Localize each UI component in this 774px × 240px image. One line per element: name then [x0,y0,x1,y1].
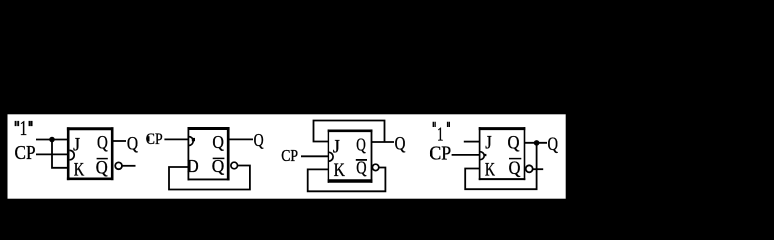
wire CP to clock (circuit 2) [164,138,188,140]
inverted output bubble (circuit 2) [231,162,238,169]
svg-text:CP: CP [429,143,451,164]
wire bottom feedback Qbar to K (circuit 3) [308,168,386,192]
logic-1 label "1" (circuit 1) [16,116,32,140]
svg-text:Q: Q [97,134,108,154]
svg-text:Q: Q [96,158,109,178]
svg-text:CP: CP [281,146,298,165]
svg-text:J: J [485,133,492,153]
JK flip-flop FF1 [67,127,114,180]
svg-text:K: K [485,160,496,180]
wire Qbar output (circuit 1) [122,165,136,167]
svg-text:D: D [187,156,199,176]
CP label (circuit 2) [147,136,149,141]
svg-text:K: K [334,161,346,181]
svg-text:Q: Q [356,134,366,154]
wire Q output (circuit 4) [524,142,547,144]
svg-text:Q: Q [254,130,264,150]
inverted output bubble (circuit 4) [526,165,533,172]
svg-text:Q: Q [395,134,406,154]
svg-text:Q: Q [212,132,224,152]
svg-text:CP: CP [15,143,36,164]
wire J input (circuit 4) [464,141,479,143]
JK flip-flop FF3 [328,129,373,182]
wire Qbar output (circuit 4) [533,168,544,170]
node junction on Q output (circuit 4) [534,140,540,146]
wire CP to clock (circuit 3) [301,155,329,157]
svg-text:CP: CP [146,131,163,148]
quote marks label (circuit 4) [433,122,449,127]
CP label (circuit 4) [430,151,432,157]
wire Q output (circuit 1) [113,140,126,142]
svg-text:J: J [333,137,340,157]
node junction on J wire (circuit 1) [49,137,55,143]
wire feedback Qbar to D (circuit 2) [169,166,250,190]
inverted output bubble (circuit 3) [372,164,378,170]
svg-text:1: 1 [20,116,28,140]
JK flip-flop FF4 [479,127,526,180]
wire Q output (circuit 2) [228,138,253,140]
inverted output bubble (circuit 1) [115,162,122,169]
D flip-flop FF2 [187,127,229,180]
wire CP to clock (circuit 1) [36,153,68,155]
svg-text:Q: Q [508,134,521,154]
wire CP to clock (circuit 4) [452,154,480,156]
svg-text:Q: Q [548,135,559,155]
wire top feedback Q to J (circuit 3) [314,121,385,143]
wire feedback Q to K (circuit 4) [465,143,536,189]
svg-text:1: 1 [437,124,444,145]
wire junction to K input (circuit 1) [52,140,68,168]
wire Q output (circuit 3) [372,141,394,143]
svg-text:K: K [74,161,85,181]
wire J input (circuit 1) [36,139,68,141]
svg-text:Q: Q [127,134,139,154]
svg-text:Q: Q [509,159,521,179]
